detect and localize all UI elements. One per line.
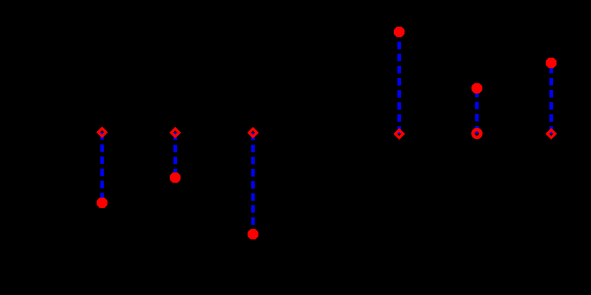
stem 5 dashed riser — [475, 88, 479, 133]
stem 3 asterisk point — [248, 229, 259, 239]
stem 6 baseline diamond — [547, 130, 555, 138]
stem 4 dashed riser — [397, 32, 401, 134]
stem 2 baseline diamond — [171, 129, 179, 137]
stem 1 baseline diamond — [98, 128, 106, 136]
stem 2 dashed riser — [173, 133, 177, 178]
stem 6 asterisk point — [546, 58, 557, 68]
stem 2 asterisk point — [170, 172, 181, 182]
stem 1 asterisk point — [97, 198, 108, 208]
stem 3 baseline diamond — [249, 129, 257, 137]
stem 6 dashed riser — [549, 63, 553, 134]
stem 5 asterisk point — [472, 83, 483, 93]
stem 1 dashed riser — [100, 132, 104, 203]
stem 3 dashed riser — [251, 133, 255, 235]
stem 4 asterisk point — [394, 27, 405, 37]
stem 4 baseline diamond — [395, 130, 403, 138]
stem 5 baseline circle — [473, 130, 481, 138]
